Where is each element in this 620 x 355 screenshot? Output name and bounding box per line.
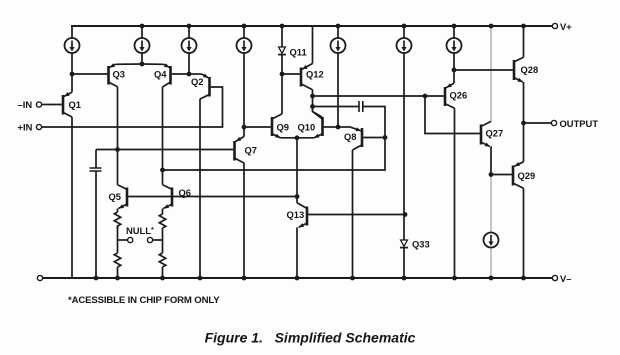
node Q7 collector rail [242,276,247,281]
wire C1 node to Q7 base [96,149,233,151]
svg-text:Q27: Q27 [486,128,504,139]
wire branch down to Q27 base [425,96,480,134]
diode Q11 [278,26,286,74]
transistor Q1 [63,92,72,117]
wire Q7 collector down to rail [243,163,245,278]
node V+ rail I7 [452,24,457,29]
svg-text:Figure 1. Simplified Schemat: Figure 1. Simplified Schematic [205,330,416,346]
svg-text:Q2: Q2 [191,76,204,87]
wire Q2 collector down to V- rail [199,99,201,278]
node I3/Q4 base/Q2 emitter [187,72,192,77]
node output [521,121,526,126]
node I4/Q7 emitter/Q9 base [242,125,247,130]
current source I2 [135,26,150,64]
svg-text:Q9: Q9 [277,122,290,133]
svg-text:*ACESSIBLE IN CHIP FORM ONLY: *ACESSIBLE IN CHIP FORM ONLY [68,295,220,306]
node Q26 base branch [423,94,428,99]
node Q33 rail [402,276,407,281]
wire Q9/Q10 emitters [281,137,315,139]
V- terminal right [552,275,557,280]
wire -IN to Q1 base [42,104,62,106]
svg-text:Q12: Q12 [306,69,324,80]
node Q29 collector rail [521,276,526,281]
current source I8 [484,175,499,279]
V+ rail [71,25,552,27]
wire Q26 emitter up to node [453,70,455,83]
node C1 rail [94,276,99,281]
node Q13 emitter rail [295,276,300,281]
wire node to C2 [313,106,360,108]
transistor Q3 [109,63,118,87]
wire R3 to R4 with null tap [162,228,164,253]
node V+ rail I5 [336,24,341,29]
wire node to Q29 base [491,174,512,176]
wire V+ to Q27 collector (thin) [490,26,492,121]
wire output node to terminal [524,122,552,124]
wire Q5 emitter to resistor [117,209,119,213]
node Q4/Q6 collectors [160,168,165,173]
wire Q13 emitter down to rail [296,227,298,278]
node V+ rail Q28 [521,24,526,29]
node R4 rail [160,276,165,281]
wire node to Q3 base [72,73,107,75]
-IN terminal [36,102,41,107]
transistor Q12 [301,64,313,90]
node V+ rail Q11 [280,24,285,29]
svg-text:V+: V+ [560,21,572,32]
wire Q4 base to node [172,73,189,75]
node V+ rail I4 [242,24,247,29]
resistor R4 lower [159,253,165,267]
svg-text:Q28: Q28 [521,64,539,75]
wire Q6 emitter to resistor [162,209,164,215]
current source I7 [447,26,462,70]
wire node to Q26 base [313,95,444,97]
null tap wire right [153,239,163,241]
svg-text:–IN: –IN [18,99,33,110]
wire center node to Q4 emitter [142,63,164,65]
node Q8 base/C2/compensation loop [383,135,388,140]
wire Q1 collector down to V- rail [71,117,73,278]
node Q13 base/I6/Q33 [403,212,408,217]
wire Q28 collector to V+ rail [523,26,525,57]
wire node to Q8 emitter [338,126,351,128]
wire Q6 collector [162,170,164,185]
current source I4 [237,26,252,127]
V- terminal left [37,275,42,280]
transistor Q10 [313,112,323,138]
svg-text:Q8: Q8 [344,131,357,142]
node I5/Q10 base/Q8 emitter [336,125,341,130]
wire Q27 emitter down to Q29 base node [490,147,492,175]
OUTPUT terminal [551,120,556,125]
svg-text:Q3: Q3 [113,69,126,80]
NULL terminal left [128,237,133,242]
wire node to Q12 base [282,73,300,75]
node Q9/Q10 emitters [295,135,300,140]
wire Q7 emitter up to node [243,127,245,137]
capacitor C2 [359,101,363,112]
resistor R2 lower [114,253,120,267]
node C2 left [310,104,315,109]
node Q3 collector/Q5 collector on base line [115,147,120,152]
node I1/Q3 base/Q1 emitter [70,72,75,77]
V- rail [43,277,553,279]
svg-text:Q11: Q11 [290,47,307,58]
zener Q33 [400,215,408,279]
wire Q5/Q6 base line to Q13 collector node [128,196,297,198]
transistor Q8 [351,127,362,150]
null tap wire left [118,239,128,241]
wire Q5 collector [117,150,119,185]
node R2 rail [115,276,120,281]
current source I3 [182,26,197,74]
svg-text:Q26: Q26 [450,90,468,101]
transistor Q29 [513,162,524,189]
wire R2 to rail [117,267,119,278]
svg-text:+IN: +IN [18,122,33,133]
transistor Q2 [200,74,210,100]
node I7/Q26 emitter/Q28 base [452,68,457,73]
wire Q1 emitter up to node [71,74,73,92]
node V+ rail I6 [402,24,407,29]
node Q12 collector/Q26 base line [310,94,315,99]
resistor R1 upper [114,212,120,229]
svg-text:Q4: Q4 [154,69,167,80]
svg-text:Q1: Q1 [69,99,82,110]
wire node to Q9 base [244,126,271,128]
svg-text:V–: V– [560,273,571,284]
wire node to Q2 emitter [189,73,202,75]
transistor Q27 [481,121,491,146]
wire R1 to R2 with null tap [117,226,119,253]
node Q2 collector rail [198,276,203,281]
node Q8 collector rail [350,276,355,281]
transistor Q6 [163,185,173,209]
V+ terminal [552,23,557,28]
svg-text:NULL*: NULL* [126,225,154,236]
current source I5 [331,26,346,127]
wire C2 right to Q8 base node [363,107,385,138]
transistor Q28 [514,57,524,82]
svg-text:Q6: Q6 [179,187,192,198]
transistor Q9 [272,114,282,138]
resistor R3 upper [159,214,165,228]
svg-text:Q7: Q7 [245,145,258,156]
wire Q28 emitter down to output node [523,82,525,123]
node V+ rail I3 [187,24,192,29]
wire Q3 collector down [117,87,119,150]
wire Q8 collector down to rail [352,150,354,278]
node Q3/Q4 emitters [140,62,145,67]
svg-text:Q10: Q10 [298,122,316,133]
transistor Q7 [235,137,245,164]
node Q11/Q12 base/Q9 collector [280,72,285,77]
NULL terminal right [147,237,152,242]
node Q27 emitter/I8/Q29 base [489,172,494,177]
wire node to Q28 base [454,69,513,71]
wire Q29 collector down to rail [523,188,525,278]
svg-text:Q33: Q33 [412,239,430,250]
transistor Q13 [297,203,307,228]
transistor Q4 [163,63,171,87]
wire Q3 emitter to center node [116,63,143,65]
node I8 rail [489,276,494,281]
wire Q4 collector down [162,87,164,170]
wire node down to Q13 collector [296,197,298,203]
svg-text:Q13: Q13 [287,209,305,220]
node Q5/Q6 base line / Q13 collector [295,194,300,199]
wire Q26 collector down to rail [454,108,456,278]
+IN terminal [36,124,41,129]
wire output node down to Q29 emitter [523,123,525,162]
current source I6 [397,26,412,215]
wire Q12 emitter to V+ rail [312,26,314,64]
wire loop down and left to Q4/Q6 collector node [163,138,386,171]
svg-text:Q5: Q5 [109,191,122,202]
wire R4 to rail [162,267,164,278]
current source I1 [65,26,80,74]
node V+ rail I8 [489,24,494,29]
wire emitters node down to Q5/Q6 base line [296,138,298,197]
capacitor C1 [90,150,102,279]
wire Q9 collector up to Q11/Q12 node [281,74,283,114]
wire Q10 base to Q8 emitter node [324,126,338,128]
node Q26 collector rail [452,276,457,281]
wire Q12 collector down to Q10 collector [313,90,323,117]
svg-text:Q29: Q29 [518,170,536,181]
node V+ rail I2 [140,24,145,29]
wire Q8 base to node [363,137,385,139]
transistor Q26 [445,83,455,108]
wire Q13 base to zener node [308,214,405,216]
wire +IN to Q2 base [42,87,223,127]
transistor Q5 [118,185,128,209]
svg-text:OUTPUT: OUTPUT [560,118,599,129]
